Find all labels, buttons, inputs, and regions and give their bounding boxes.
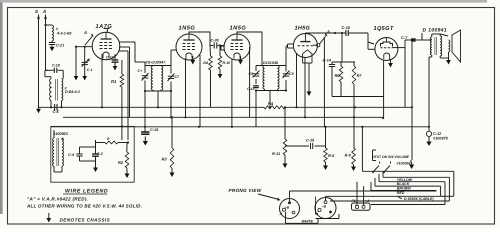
- rail B y116.5: [63, 116, 383, 118]
- capacitor C-10: [106, 56, 118, 63]
- legend title WIRE LEGEND: [63, 189, 108, 195]
- V4 diode plate: [313, 44, 320, 47]
- svg-text:R-8: R-8: [345, 153, 352, 158]
- resistor R-11: [272, 139, 287, 156]
- svg-text:C-7: C-7: [401, 35, 408, 40]
- svg-text:#100975: #100975: [433, 137, 449, 141]
- volume control bracket: [373, 150, 377, 161]
- ground below V2: [190, 56, 195, 65]
- rail segment y106.5 right: [285, 106, 355, 108]
- ground below C-21: [50, 45, 55, 51]
- resistor R-4 in rail: [264, 101, 286, 109]
- cable wire yellow: [330, 171, 454, 201]
- svg-text:D-65656 (CABLE): D-65656 (CABLE): [404, 197, 434, 201]
- cable wire black: [371, 182, 445, 205]
- svg-text:R-5: R-5: [328, 153, 335, 158]
- wire into box x121: [121, 125, 123, 127]
- svg-text:D101048: D101048: [263, 61, 279, 65]
- ground at S line bottom: [36, 107, 41, 113]
- variable capacitor C-1: [82, 47, 93, 81]
- wire bus down to V5 grid: [368, 33, 374, 44]
- filter shield box: [51, 126, 134, 182]
- wire V1 plate right leads: [119, 42, 135, 117]
- rail C y127: [51, 126, 429, 128]
- V1 top cap lead: [104, 29, 110, 33]
- T1 frame wires: [135, 50, 172, 108]
- wire C-7 down: [405, 42, 412, 160]
- resistor R-5: [324, 148, 335, 162]
- ground stub x76: [74, 47, 79, 81]
- svg-text:RED: RED: [397, 191, 405, 195]
- svg-text:A: A: [83, 30, 87, 35]
- svg-text:WIRE LEGEND: WIRE LEGEND: [65, 189, 108, 195]
- output transformer D-100941: [423, 28, 448, 57]
- wire V4 cathode down: [303, 63, 312, 90]
- wire verticals from bus: [332, 33, 355, 62]
- svg-text:C-18: C-18: [52, 64, 60, 68]
- resistor R-10: [218, 44, 230, 69]
- svg-text:YELLOW: YELLOW: [397, 178, 413, 182]
- resistor R-8: [345, 148, 356, 165]
- wire V5 plate right: [393, 40, 410, 48]
- wire y96 link: [332, 96, 384, 98]
- prong view pointer arrow: [258, 194, 281, 201]
- IF transformer T2 D-100148: [263, 61, 279, 89]
- ground below C-12: [426, 136, 431, 146]
- svg-text:OFST ON SW VOLUME: OFST ON SW VOLUME: [372, 155, 410, 159]
- capacitor C-30: [211, 39, 225, 49]
- svg-text:+B: +B: [322, 205, 327, 209]
- tube V5 1Q5GT envelope: [375, 38, 398, 61]
- switch levers: [372, 162, 390, 174]
- rail segment y107 far right: [354, 106, 413, 108]
- wire V5 grid left: [368, 42, 375, 49]
- capacitor C-12 electrolytic: [426, 131, 448, 140]
- V4 grid arrow: [320, 29, 331, 44]
- tube V1 stem legs: [102, 54, 115, 107]
- grid wire arrow into V1: [83, 30, 94, 45]
- svg-text:C9: C9: [289, 72, 294, 76]
- svg-text:C-13: C-13: [247, 87, 254, 91]
- resistor R7: [352, 62, 362, 107]
- svg-text:R1: R1: [111, 79, 117, 84]
- transformer leads in box: [54, 130, 62, 172]
- capacitor C-4: [68, 147, 96, 161]
- svg-text:C-19: C-19: [150, 128, 159, 132]
- ground below V3: [238, 56, 243, 65]
- svg-text:#100958: #100958: [397, 162, 411, 166]
- svg-text:R7: R7: [357, 73, 363, 78]
- transformer bottom leads: [428, 55, 432, 131]
- svg-text:C-1: C-1: [87, 68, 93, 72]
- tube V3 1N5G envelope: [224, 34, 250, 60]
- switch SW volume labels: [372, 155, 411, 166]
- legend line all other: [26, 204, 142, 209]
- wire V4 left lead: [286, 44, 293, 48]
- wire V4 left side down: [296, 53, 298, 107]
- resistor R-9: [202, 46, 212, 108]
- legend line A wire: [27, 197, 88, 202]
- svg-text:1H5G: 1H5G: [295, 26, 311, 32]
- cable wire brown: [375, 186, 441, 196]
- svg-text:#100963: #100963: [53, 132, 69, 136]
- svg-text:R6: R6: [335, 73, 341, 78]
- svg-text:C-4: C-4: [68, 153, 75, 157]
- wire screen bus y33: [305, 32, 368, 34]
- capacitor C-13: [247, 86, 259, 127]
- antenna coil L1: [52, 25, 72, 41]
- wire V5 cathode down: [383, 60, 385, 119]
- svg-text:C-30: C-30: [211, 39, 220, 43]
- capacitor C-21: [49, 41, 64, 48]
- ground below C-19: [143, 136, 148, 145]
- label 1N5G second: [230, 25, 247, 31]
- connector socket F1 +A: [352, 199, 371, 210]
- capacitor C-7a (T1 secondary trim): [168, 74, 181, 118]
- wire +A up: [363, 186, 365, 205]
- wire into box x129: [127, 51, 129, 140]
- wire plug1 bottom WHITE: [286, 212, 319, 224]
- svg-text:+B: +B: [285, 205, 290, 209]
- wire diode down: [323, 38, 325, 127]
- capacitor C-19: [141, 91, 159, 134]
- label 1A7G: [96, 24, 113, 30]
- label PRONG VIEW: [229, 188, 262, 193]
- capacitor C-16: [342, 25, 351, 36]
- resistor R1: [111, 60, 124, 140]
- wire R-3 feed: [171, 116, 173, 148]
- ground below C-1: [93, 165, 98, 172]
- svg-text:C-5: C-5: [53, 110, 60, 114]
- label 1N5G first: [179, 25, 196, 31]
- V2 plate wire to C-30: [189, 32, 213, 46]
- capacitor C-18: [46, 64, 60, 73]
- battery plug P1: [279, 199, 300, 219]
- wire V3 side leads down: [232, 47, 250, 127]
- resistor R-3: [162, 148, 174, 168]
- capacitor C-15: [285, 139, 326, 150]
- wire V1 grid left: [75, 46, 93, 48]
- svg-text:R-11: R-11: [272, 151, 280, 156]
- wire secondary to speaker: [440, 34, 448, 58]
- junction dots rails: [101, 106, 384, 128]
- wire R-11 feed: [284, 107, 286, 139]
- svg-text:R-10: R-10: [223, 61, 231, 65]
- svg-text:C-14: C-14: [323, 58, 332, 63]
- legend chassis arrow: [46, 213, 51, 223]
- label cable part: [397, 196, 434, 201]
- label 1H5G: [295, 26, 311, 32]
- svg-text:ALL OTHER WIRING TO BE #20 V.: ALL OTHER WIRING TO BE #20 V.S.W. 44 SOL…: [26, 204, 142, 209]
- wire plug2 top: [326, 196, 441, 200]
- V3 plate wire to T2: [237, 32, 262, 66]
- svg-text:1N5G: 1N5G: [230, 25, 247, 31]
- svg-text:4-3-1-69: 4-3-1-69: [56, 32, 72, 36]
- svg-text:1Q5GT: 1Q5GT: [374, 26, 394, 32]
- ground below R-2: [125, 171, 130, 178]
- capacitor C-5 series in rail: [53, 104, 60, 114]
- svg-text:C-15: C-15: [306, 139, 315, 143]
- svg-text:C6+D10947: C6+D10947: [146, 61, 167, 65]
- audio transformer D-100963: [53, 132, 69, 166]
- resistor R6: [335, 62, 343, 97]
- wire F1 up: [356, 182, 358, 206]
- speaker horn: [452, 30, 461, 62]
- node S (ground lead-in): [35, 9, 40, 107]
- wire R-8 feed: [353, 107, 355, 148]
- wire C-14 down: [331, 69, 333, 97]
- rail AVC y106.5: [39, 106, 265, 108]
- capacitor C-9 (T2 trim): [283, 71, 294, 79]
- capacitor C-6 (T1 primary trim): [138, 69, 149, 81]
- svg-text:C-16: C-16: [342, 25, 351, 30]
- tube V4 1H5G envelope: [293, 34, 317, 64]
- wire V2 side leads down: [186, 55, 201, 127]
- ground below R-3: [170, 168, 175, 177]
- plug P2 frame: [316, 197, 340, 219]
- svg-text:C-12: C-12: [433, 132, 442, 136]
- cable left drops: [371, 171, 388, 190]
- svg-text:A: A: [42, 9, 46, 14]
- capacitor C-1 electrolytic: [92, 140, 103, 165]
- label 1Q5GT: [374, 26, 394, 32]
- svg-text:C-10: C-10: [106, 56, 114, 60]
- ground below R-10: [218, 69, 223, 79]
- svg-text:C8: C8: [249, 72, 254, 76]
- transformer top leads: [422, 33, 440, 40]
- legend denotes chassis: [60, 218, 111, 223]
- capacitor C-14: [323, 58, 336, 70]
- ground below R-8: [351, 165, 356, 172]
- speaker voice coil: [449, 40, 450, 52]
- wire rail to cable loop: [361, 127, 363, 172]
- wire R-5 feed: [325, 127, 327, 148]
- wire x305 down: [304, 58, 306, 118]
- osc coil bottom joins: [50, 101, 63, 109]
- ground below R-11: [283, 155, 288, 168]
- wire antenna to coil: [44, 24, 52, 26]
- svg-text:WHITE: WHITE: [302, 220, 314, 224]
- svg-text:1N5G: 1N5G: [179, 25, 196, 31]
- svg-text:DENOTES CHASSIS: DENOTES CHASSIS: [60, 218, 111, 223]
- tube V1 1A7G envelope: [92, 32, 120, 60]
- node A (antenna lead-in): [42, 9, 47, 70]
- svg-text:BLACK: BLACK: [397, 182, 410, 186]
- oscillator transformer D-100942: [50, 79, 80, 101]
- svg-text:PRONG VIEW: PRONG VIEW: [229, 188, 262, 193]
- svg-text:2M: 2M: [202, 61, 208, 65]
- capacitor C-7: [401, 35, 422, 42]
- tube V2 1N5G envelope: [176, 34, 202, 60]
- svg-text:R3: R3: [162, 156, 168, 161]
- ground V4 cathode: [307, 90, 312, 97]
- wire C-4 top: [80, 146, 96, 148]
- ground below speaker coil: [446, 52, 451, 65]
- wire C-18 to osc coil: [45, 70, 63, 78]
- scan edge strip left: [0, 0, 3, 214]
- resistor R-2: [118, 143, 129, 171]
- IF transformer T1 D-100147: [146, 61, 167, 91]
- svg-text:D 100941: D 100941: [423, 28, 448, 34]
- ground below R-5: [323, 162, 328, 170]
- component R-12 on box top: [96, 137, 130, 147]
- svg-text:D-84-4-1: D-84-4-1: [65, 90, 80, 94]
- svg-text:R2: R2: [118, 160, 124, 165]
- svg-text:C-21: C-21: [56, 44, 64, 48]
- scan edge strip top: [0, 0, 487, 3]
- ground below V5: [388, 59, 393, 68]
- battery plug P2: [315, 198, 336, 219]
- svg-text:"A" = V.A.R.#6422 (RED).: "A" = V.A.R.#6422 (RED).: [27, 197, 88, 202]
- wire plug1 top: [290, 191, 437, 201]
- wire V3 left lead: [221, 46, 225, 50]
- svg-text:R4: R4: [268, 101, 274, 106]
- cable wire red: [371, 191, 436, 196]
- capacitor C-8 (T2 trim): [249, 71, 260, 78]
- svg-text:#: #: [56, 27, 58, 31]
- ground chassis at switch: [409, 160, 414, 169]
- ground below C-10: [113, 62, 118, 70]
- T2 frame wires: [255, 46, 287, 107]
- wire V2 left lead: [171, 49, 177, 51]
